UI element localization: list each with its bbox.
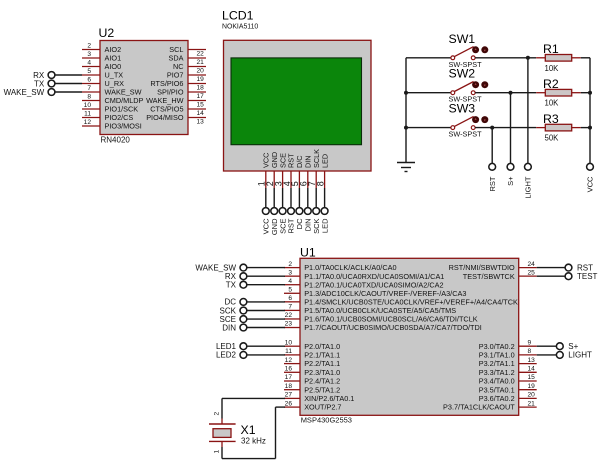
- terminal SCE (U1): [220, 315, 285, 324]
- U1 left pin 12: [284, 357, 340, 368]
- U1 right pin 24: [449, 261, 537, 272]
- svg-text:15: 15: [528, 374, 536, 381]
- LCD1 pin 7 SCLK: [307, 149, 321, 208]
- U1 right pin 19: [479, 383, 537, 394]
- svg-text:P1.7/CAOUT/UCB0SIMO/UCB0SDA/A7: P1.7/CAOUT/UCB0SIMO/UCB0SDA/A7/CA7/TDO/T…: [304, 323, 482, 332]
- svg-text:SW-SPST: SW-SPST: [449, 130, 483, 139]
- junction VCC rail R3: [588, 126, 592, 130]
- svg-text:TEST/SBWTCK: TEST/SBWTCK: [463, 272, 515, 281]
- svg-text:WAKE_SW: WAKE_SW: [4, 88, 45, 97]
- U1 left pin 10: [284, 339, 340, 350]
- U1 left pin 18: [284, 383, 340, 394]
- crystal X1 32kHz: [209, 412, 266, 454]
- terminal S+: [506, 163, 515, 185]
- U2 left pin 4 AIO0: [82, 60, 121, 71]
- terminal RST (U1 right): [537, 263, 593, 272]
- U2 right pin 19 PIO7: [167, 71, 206, 83]
- svg-text:13: 13: [197, 118, 205, 125]
- wire SW1 to R1: [475, 57, 536, 59]
- wire VCC rail: [589, 58, 591, 164]
- resistor R3 50K: [536, 112, 581, 143]
- svg-text:15: 15: [197, 101, 205, 108]
- U1 right pin 15: [479, 374, 537, 385]
- terminal WAKE_SW (U2): [4, 88, 82, 97]
- U1 right pin 8: [479, 348, 537, 359]
- U1 left pin 22: [284, 312, 478, 323]
- svg-text:10: 10: [84, 102, 92, 109]
- svg-text:11: 11: [84, 111, 91, 118]
- junction RST tap: [490, 126, 494, 130]
- svg-text:4: 4: [87, 60, 91, 67]
- IC U2 RN4020: [99, 26, 189, 145]
- wire S+ column: [510, 93, 512, 164]
- svg-text:4: 4: [288, 278, 292, 285]
- LCD1 pin 4 RST: [282, 153, 296, 208]
- terminal GND (LCD): [270, 208, 279, 236]
- svg-text:26: 26: [285, 400, 293, 407]
- svg-text:27: 27: [285, 392, 293, 399]
- junction S+ tap: [509, 91, 513, 95]
- svg-text:32 kHz: 32 kHz: [241, 437, 266, 446]
- U1 left pin 6: [284, 295, 518, 306]
- svg-text:P3.3/TA1.2: P3.3/TA1.2: [479, 368, 515, 377]
- terminal VCC (LCD): [262, 208, 271, 235]
- svg-text:18: 18: [285, 383, 293, 390]
- terminal VCC: [586, 163, 595, 192]
- svg-text:11: 11: [285, 348, 292, 355]
- svg-text:3: 3: [87, 51, 91, 58]
- svg-text:S+: S+: [568, 342, 578, 351]
- U2 left pin 12 PIO3/MOSI: [82, 119, 142, 130]
- svg-text:7: 7: [288, 304, 292, 311]
- svg-text:10: 10: [285, 339, 293, 346]
- switch SW3 SW-SPST: [406, 102, 488, 139]
- svg-text:P3.5/TA0.1: P3.5/TA0.1: [479, 385, 515, 394]
- svg-text:14: 14: [528, 366, 536, 373]
- svg-text:8: 8: [87, 94, 91, 101]
- U1 left pin 16: [284, 366, 340, 377]
- svg-text:22: 22: [197, 50, 205, 57]
- svg-text:P3.4/TA0.0: P3.4/TA0.0: [479, 377, 515, 386]
- svg-text:TEST: TEST: [577, 272, 598, 281]
- U1 left pin 26: [284, 400, 342, 411]
- LCD1 pin 5 D/C: [290, 155, 304, 207]
- svg-text:P3.6/TA0.2: P3.6/TA0.2: [479, 394, 515, 403]
- terminal DIN (LCD): [304, 208, 313, 232]
- svg-text:P2.0/TA1.0: P2.0/TA1.0: [304, 342, 340, 351]
- resistor R1 10K: [536, 42, 581, 73]
- U1 left pin 3: [284, 269, 444, 280]
- terminal WAKE_SW (U1): [195, 263, 285, 272]
- U1 right pin 25: [463, 269, 537, 280]
- svg-text:RN4020: RN4020: [101, 136, 131, 145]
- svg-text:LED2: LED2: [216, 351, 237, 360]
- svg-text:PIO3/MOSI: PIO3/MOSI: [105, 122, 142, 131]
- svg-text:14: 14: [197, 110, 205, 117]
- U2 right pin 14 CTS/PIO5: [150, 105, 206, 117]
- U1 left pin 5: [284, 286, 466, 297]
- junction LIGHT tap: [526, 56, 530, 60]
- U1 left pin 23: [284, 321, 482, 332]
- svg-text:22: 22: [285, 312, 293, 319]
- LCD1 pin 6 DIN: [299, 155, 313, 207]
- terminal TX (U2): [34, 79, 82, 88]
- svg-text:10K: 10K: [545, 64, 560, 73]
- svg-text:SW3: SW3: [449, 102, 476, 116]
- svg-text:PIO4/MISO: PIO4/MISO: [146, 113, 184, 122]
- terminal SCK (U1): [220, 306, 285, 315]
- terminal RST: [488, 163, 497, 191]
- wire crystal bottom to pin26: [222, 407, 285, 459]
- svg-text:19: 19: [528, 383, 536, 390]
- wire LIGHT column: [527, 58, 529, 164]
- U2 left pin 8 CMD/MLDP: [82, 94, 144, 105]
- wire RST column: [491, 128, 493, 164]
- svg-text:LED: LED: [320, 218, 329, 233]
- U1 left pin 7: [284, 304, 456, 315]
- svg-text:P3.1/TA1.0: P3.1/TA1.0: [479, 351, 515, 360]
- svg-text:24: 24: [528, 261, 536, 268]
- terminal DC (LCD): [295, 208, 304, 230]
- svg-text:19: 19: [197, 76, 205, 83]
- svg-text:LCD1: LCD1: [222, 8, 254, 22]
- svg-text:12: 12: [84, 119, 92, 126]
- terminal S+ (U1 right): [537, 342, 579, 351]
- svg-text:20: 20: [197, 67, 205, 74]
- svg-text:P3.7/TA1CLK/CAOUT: P3.7/TA1CLK/CAOUT: [443, 403, 515, 412]
- terminal LIGHT (U1 right): [537, 351, 592, 360]
- terminal SCE (LCD): [278, 208, 287, 234]
- U1 right pin 14: [479, 366, 537, 377]
- svg-text:X1: X1: [241, 423, 256, 437]
- svg-text:9: 9: [528, 339, 532, 346]
- terminal TEST (U1 right): [537, 272, 598, 281]
- wire SW3 to R3: [475, 127, 536, 129]
- junction left rail SW2: [404, 91, 408, 95]
- svg-text:6: 6: [288, 295, 292, 302]
- U2 left pin 11 PIO2/CS: [82, 111, 133, 122]
- U1 right pin 21: [443, 400, 537, 411]
- U2 left pin 5 U_TX: [82, 68, 123, 79]
- U2 left pin 7 WAKE_SW: [82, 85, 142, 96]
- svg-text:12: 12: [285, 357, 293, 364]
- svg-text:XIN/P2.6/TA0.1: XIN/P2.6/TA0.1: [304, 394, 354, 403]
- svg-text:P2.3/TA1.0: P2.3/TA1.0: [304, 368, 340, 377]
- ground symbol: [397, 163, 415, 172]
- U1 left pin 27: [284, 392, 354, 403]
- switch SW1 SW-SPST: [406, 32, 488, 69]
- svg-text:7: 7: [87, 85, 91, 92]
- junction VCC rail R2: [588, 91, 592, 95]
- wire R1 to VCC rail: [581, 57, 590, 59]
- svg-text:2: 2: [288, 261, 292, 268]
- svg-text:17: 17: [197, 93, 205, 100]
- svg-text:16: 16: [285, 366, 293, 373]
- terminal DIN (U1): [222, 323, 285, 332]
- svg-text:R3: R3: [543, 112, 559, 126]
- svg-text:8: 8: [528, 348, 532, 355]
- svg-text:2: 2: [87, 43, 91, 50]
- U2 left pin 10 PIO1/SCK: [82, 102, 138, 113]
- svg-text:U2: U2: [99, 26, 115, 40]
- terminal LED (LCD): [320, 208, 329, 233]
- IC U1 MSP430G2553: [300, 245, 519, 424]
- wire pin27 to crystal top: [222, 398, 285, 418]
- switch SW2 SW-SPST: [406, 67, 488, 104]
- U1 right pin 13: [479, 357, 537, 368]
- U1 right pin 9: [479, 339, 537, 350]
- wire left rail to ground: [405, 58, 407, 163]
- svg-text:VCC: VCC: [586, 176, 595, 192]
- svg-text:XOUT/P2.7: XOUT/P2.7: [304, 403, 341, 412]
- U2 left pin 6 U_RX: [82, 77, 124, 88]
- svg-text:SW1: SW1: [449, 32, 476, 46]
- U2 right pin 15 WAKE_HW: [146, 96, 206, 108]
- svg-text:U1: U1: [300, 245, 316, 259]
- U1 left pin 2: [284, 261, 397, 272]
- svg-text:P2.4/TA1.2: P2.4/TA1.2: [304, 377, 340, 386]
- svg-text:LED: LED: [320, 154, 329, 168]
- svg-text:S+: S+: [506, 176, 515, 186]
- svg-text:1: 1: [214, 450, 221, 454]
- svg-text:2: 2: [214, 412, 221, 416]
- svg-text:LED1: LED1: [216, 342, 237, 351]
- U2 left pin 2 AIO2: [82, 43, 121, 54]
- U2 right pin 18 RTS/PIO6: [150, 79, 206, 91]
- terminal DC (U1): [224, 298, 285, 307]
- terminal LED2 (U1): [216, 351, 285, 360]
- U2 right pin 21 SDA: [168, 54, 206, 66]
- svg-text:23: 23: [285, 321, 293, 328]
- svg-text:8: 8: [315, 181, 325, 186]
- svg-text:P3.0/TA0.2: P3.0/TA0.2: [479, 342, 515, 351]
- svg-text:RST: RST: [488, 176, 497, 191]
- U1 right pin 20: [479, 392, 537, 403]
- svg-text:R1: R1: [543, 42, 559, 56]
- svg-text:P2.5/TA1.2: P2.5/TA1.2: [304, 385, 340, 394]
- terminal RX (U2): [33, 71, 82, 80]
- terminal LIGHT: [524, 163, 533, 198]
- svg-text:13: 13: [528, 357, 536, 364]
- terminal LED1 (U1): [216, 342, 285, 351]
- wire SW2 to R2: [475, 92, 536, 94]
- svg-text:LIGHT: LIGHT: [568, 351, 592, 360]
- wire R2 to VCC rail: [581, 92, 590, 94]
- svg-text:10K: 10K: [545, 99, 560, 108]
- svg-text:SW2: SW2: [449, 67, 476, 81]
- U1 left pin 11: [284, 348, 340, 359]
- terminal TX (U1): [226, 281, 285, 290]
- wire R3 to VCC rail: [581, 127, 590, 129]
- svg-text:3: 3: [288, 269, 292, 276]
- U2 right pin 17 SPI/PIO: [157, 88, 206, 100]
- svg-text:LIGHT: LIGHT: [524, 176, 533, 199]
- svg-text:50K: 50K: [545, 134, 560, 143]
- svg-text:5: 5: [87, 68, 91, 75]
- LCD1 pin 1 VCC: [257, 153, 271, 208]
- LCD1 NOKIA5110 module: [222, 8, 371, 171]
- U2 right pin 22 SCL: [169, 45, 206, 57]
- terminal SCK (LCD): [312, 208, 321, 234]
- junction left rail SW3: [404, 126, 408, 130]
- svg-text:25: 25: [528, 269, 536, 276]
- svg-text:P2.1/TA1.1: P2.1/TA1.1: [304, 351, 340, 360]
- svg-text:P2.2/TA1.1: P2.2/TA1.1: [304, 359, 340, 368]
- terminal RX (U1): [225, 272, 285, 281]
- svg-text:18: 18: [197, 84, 205, 91]
- U1 left pin 4: [284, 278, 444, 289]
- LCD1 green screen: [231, 58, 362, 145]
- svg-text:TX: TX: [226, 281, 237, 290]
- svg-text:17: 17: [285, 374, 293, 381]
- U2 right pin 13 PIO4/MISO: [146, 113, 206, 125]
- svg-text:R2: R2: [543, 77, 559, 91]
- U2 left pin 3 AIO1: [82, 51, 121, 62]
- LCD1 pin 8 LED: [315, 154, 329, 208]
- LCD1 pin 3 SCE: [273, 153, 287, 208]
- svg-text:20: 20: [528, 392, 536, 399]
- svg-text:MSP430G2553: MSP430G2553: [301, 415, 352, 424]
- svg-text:6: 6: [87, 77, 91, 84]
- LCD1 pin 2 GND: [265, 152, 279, 208]
- terminal RST (LCD): [287, 208, 296, 234]
- svg-text:DIN: DIN: [222, 323, 236, 332]
- U2 right pin 20 NC: [173, 62, 206, 74]
- svg-text:5: 5: [288, 286, 292, 293]
- resistor R2 10K: [536, 77, 581, 108]
- svg-text:P3.2/TA1.1: P3.2/TA1.1: [479, 359, 515, 368]
- svg-text:21: 21: [197, 59, 205, 66]
- U1 left pin 17: [284, 374, 340, 385]
- svg-text:NOKIA5110: NOKIA5110: [222, 24, 258, 31]
- svg-text:21: 21: [528, 400, 536, 407]
